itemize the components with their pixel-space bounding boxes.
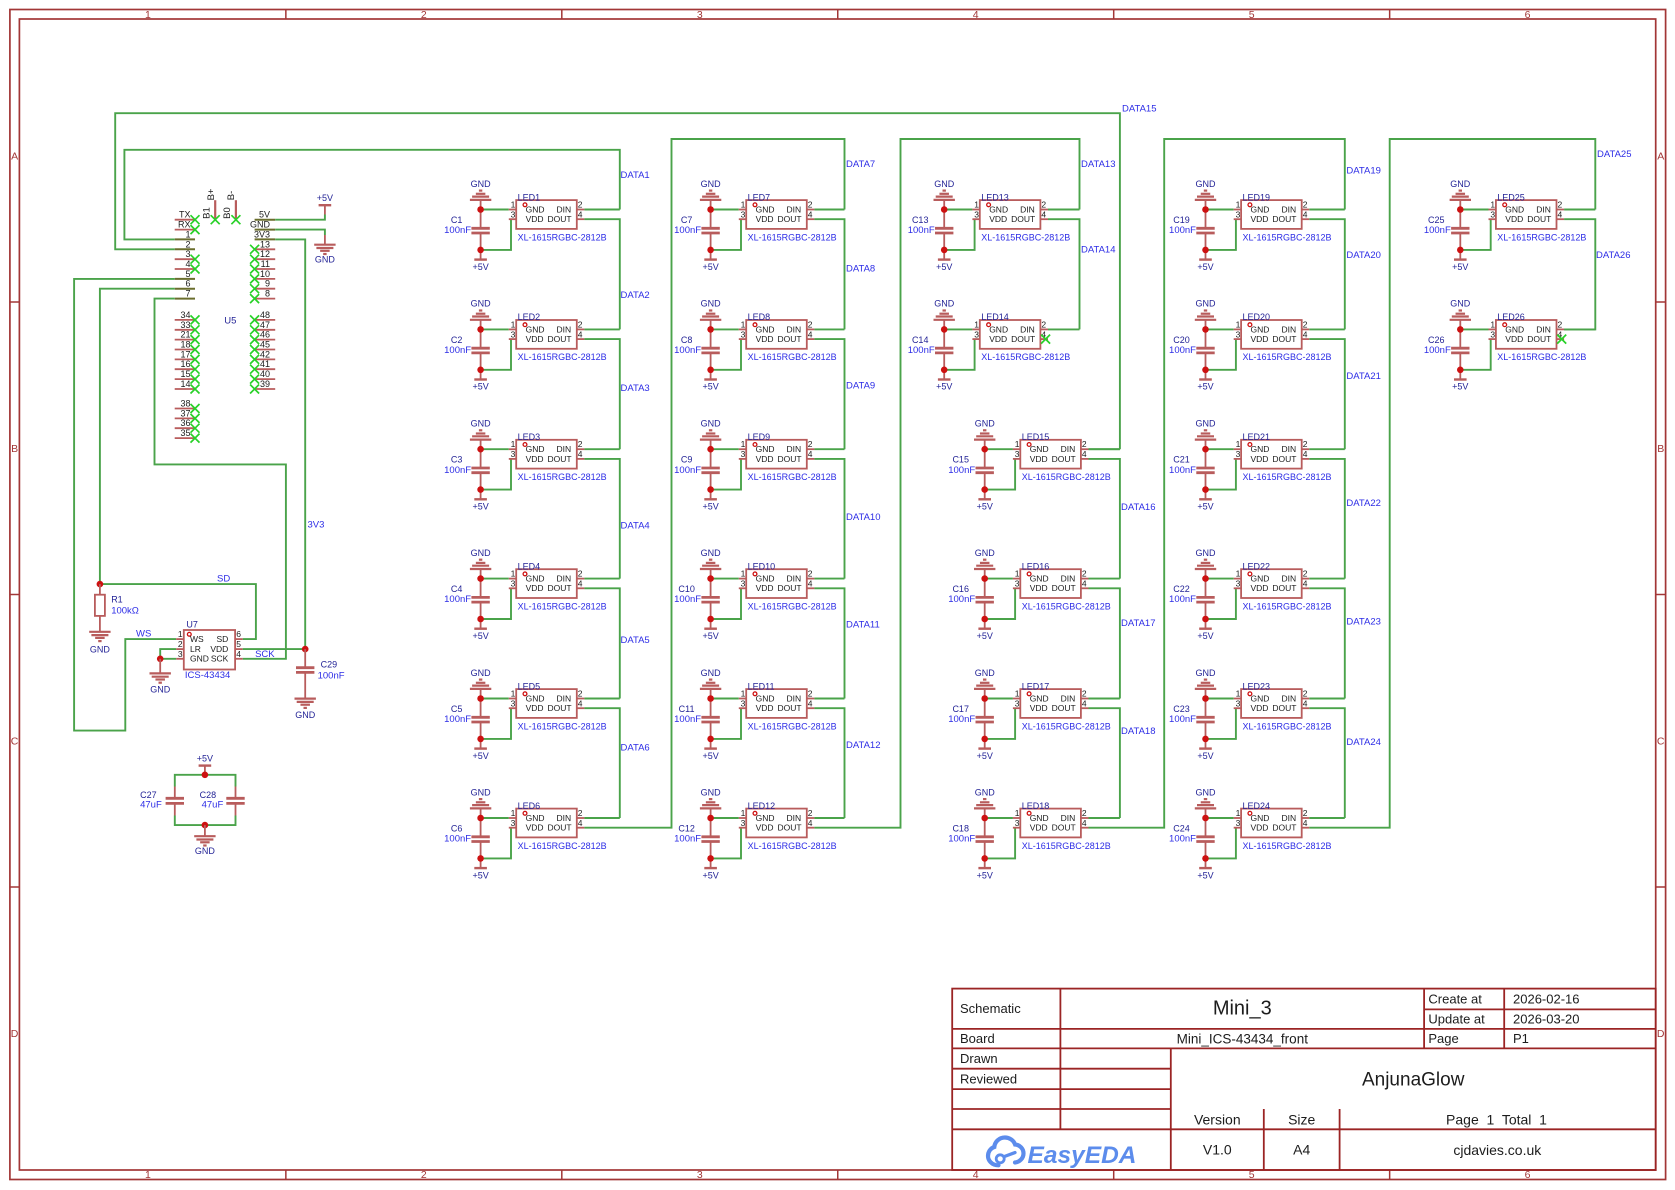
svg-text:GND: GND [526,813,545,823]
svg-text:XL-1615RGBC-2812B: XL-1615RGBC-2812B [518,721,607,731]
svg-text:3: 3 [511,329,516,339]
wire DATA10 LED9 DOUT to LED10 DIN [814,459,844,579]
wire DATA24 LED23 DOUT to LED24 DIN [1309,708,1345,818]
wire DATA26 LED25 DOUT to LED26 DIN [1564,219,1595,329]
wire C25 to LED25 GND pin [1460,209,1488,211]
svg-text:4: 4 [1303,818,1308,828]
svg-text:DATA23: DATA23 [1346,617,1381,628]
svg-text:DIN: DIN [1281,444,1296,454]
no-connect LED14 DOUT [1041,335,1050,344]
svg-text:100nF: 100nF [1424,225,1451,236]
svg-text:+5V: +5V [702,262,718,272]
svg-text:1: 1 [1015,689,1020,699]
svg-text:2: 2 [578,808,583,818]
svg-text:GND: GND [934,179,955,189]
ground symbol (LED4 block) [470,548,491,579]
no-connect LED26 DOUT [1557,335,1566,344]
svg-text:C9: C9 [681,455,693,465]
svg-text:100nF: 100nF [948,834,975,845]
svg-text:3: 3 [1490,209,1495,219]
svg-text:100nF: 100nF [444,345,471,356]
+5V power symbol (LED5 block) [472,739,488,761]
svg-text:100nF: 100nF [1169,345,1196,356]
junction C14 bottom [941,367,948,374]
svg-text:17: 17 [180,349,190,359]
wire SCK net [155,299,286,659]
svg-text:+5V: +5V [1197,751,1213,761]
svg-text:VDD: VDD [1505,334,1523,344]
wire DATA26 to LED26 DIN [1564,328,1595,330]
junction bottom rail [202,822,209,829]
+5V power symbol (LED23 block) [1197,739,1213,761]
svg-text:C3: C3 [451,455,463,465]
wire +5V to LED20 VDD pin [1206,339,1236,370]
svg-text:35: 35 [180,428,190,438]
ground symbol (LED21 block) [1195,419,1216,450]
svg-text:C4: C4 [451,584,463,594]
LED26 XL-1615RGBC-2812B [1489,312,1587,362]
svg-text:DATA26: DATA26 [1596,250,1631,261]
svg-text:2: 2 [808,808,813,818]
svg-text:VDD: VDD [756,823,774,833]
capacitor C19 100nF [1169,210,1215,250]
wire DATA13 LED12 DOUT to LED13 DIN [814,139,1079,828]
svg-text:GND: GND [701,419,722,429]
junction C10 top [707,575,714,582]
svg-text:+5V: +5V [472,751,488,761]
svg-text:1: 1 [1490,200,1495,210]
svg-text:3: 3 [511,579,516,589]
svg-text:DOUT: DOUT [548,454,572,464]
svg-text:GND: GND [526,444,545,454]
svg-text:+5V: +5V [472,631,488,641]
svg-text:2: 2 [185,239,190,249]
svg-text:VDD: VDD [1030,823,1048,833]
ground symbol (LED7 block) [700,179,721,210]
svg-text:DOUT: DOUT [1052,823,1076,833]
svg-text:B0: B0 [222,207,233,219]
svg-text:GND: GND [1030,444,1049,454]
svg-text:GND: GND [1450,299,1471,309]
svg-text:VDD: VDD [1030,703,1048,713]
+5V power symbol (LED16 block) [977,619,993,641]
capacitor C4 100nF [444,579,490,619]
LED11 XL-1615RGBC-2812B [739,681,837,731]
+5V power symbol (LED14 block) [936,370,952,392]
wire DATA7 to LED7 DIN [814,209,844,211]
svg-text:GND: GND [295,710,316,720]
wire DATA4 to LED4 DIN [584,578,619,580]
svg-text:GND: GND [1505,324,1524,334]
junction VDD/3V3/C29 [302,646,309,653]
svg-text:2: 2 [421,1169,427,1181]
wire DATA19 LED18 DOUT to LED19 DIN [1089,139,1345,828]
wire DATA8 to LED8 DIN [814,328,844,330]
svg-text:LED13: LED13 [981,192,1009,202]
svg-text:GND: GND [701,787,722,797]
svg-text:16: 16 [180,359,190,369]
capacitor C9 100nF [674,449,720,489]
svg-text:2: 2 [178,639,183,649]
svg-text:GND: GND [526,693,545,703]
svg-text:C10: C10 [678,584,695,594]
svg-text:100nF: 100nF [444,834,471,845]
svg-text:Drawn: Drawn [960,1051,998,1066]
svg-text:46: 46 [260,330,270,340]
svg-text:C28: C28 [200,790,217,800]
wire DATA15 to LED15 DIN [1089,448,1120,450]
svg-text:EasyEDA: EasyEDA [1028,1142,1137,1169]
svg-text:B: B [11,443,18,455]
svg-text:B-: B- [226,191,237,201]
svg-text:XL-1615RGBC-2812B: XL-1615RGBC-2812B [1497,352,1586,362]
svg-text:LED15: LED15 [1022,432,1050,442]
svg-text:1: 1 [741,569,746,579]
svg-text:6: 6 [185,279,190,289]
svg-text:40: 40 [260,369,270,379]
svg-text:LED20: LED20 [1243,312,1271,322]
svg-text:LED25: LED25 [1497,192,1525,202]
wire C26 to LED26 GND pin [1460,328,1488,330]
wire DATA2 to LED2 DIN [584,328,619,330]
+5V power symbol (LED8 block) [702,370,718,392]
wire U7 GND pin [160,658,176,660]
svg-text:GND: GND [471,419,492,429]
wire C22 to LED22 GND pin [1206,578,1234,580]
svg-text:LED14: LED14 [981,312,1009,322]
junction C24 bottom [1202,855,1209,862]
+5V power symbol (LED18 block) [977,858,993,880]
svg-text:DATA16: DATA16 [1121,502,1156,513]
svg-text:4: 4 [1303,579,1308,589]
svg-text:DOUT: DOUT [548,214,572,224]
svg-text:41: 41 [260,359,270,369]
svg-text:15: 15 [180,369,190,379]
svg-text:5: 5 [1249,9,1255,21]
svg-text:DATA19: DATA19 [1346,166,1381,177]
svg-text:+5V: +5V [702,751,718,761]
svg-text:4: 4 [236,649,241,659]
wire DATA12 LED11 DOUT to LED12 DIN [814,708,844,818]
svg-text:1: 1 [741,689,746,699]
junction C7 top [707,206,714,213]
svg-text:LED10: LED10 [748,561,776,571]
wire DATA5 to LED5 DIN [584,698,619,700]
svg-text:XL-1615RGBC-2812B: XL-1615RGBC-2812B [1243,232,1332,242]
svg-text:XL-1615RGBC-2812B: XL-1615RGBC-2812B [748,601,837,611]
svg-text:XL-1615RGBC-2812B: XL-1615RGBC-2812B [1022,472,1111,482]
svg-text:DIN: DIN [1061,444,1076,454]
svg-text:DOUT: DOUT [1272,703,1296,713]
svg-text:2: 2 [578,319,583,329]
svg-text:DOUT: DOUT [1272,583,1296,593]
svg-text:47uF: 47uF [202,800,224,811]
capacitor C10 100nF [674,579,720,619]
wire C14 to LED14 GND pin [944,328,972,330]
junction C20 bottom [1202,367,1209,374]
wire C23 to LED23 GND pin [1206,698,1234,700]
svg-text:VDD: VDD [756,703,774,713]
svg-text:C22: C22 [1173,584,1190,594]
svg-text:C18: C18 [952,824,969,834]
wire +5V to LED8 VDD pin [711,339,741,370]
svg-text:DATA22: DATA22 [1346,498,1381,509]
svg-text:DOUT: DOUT [548,583,572,593]
svg-text:Page 1 Total 1: Page 1 Total 1 [1446,1111,1547,1127]
wire DATA10 to LED10 DIN [814,578,844,580]
svg-text:100nF: 100nF [1169,714,1196,725]
wire +5V to LED9 VDD pin [711,459,741,490]
svg-text:B+: B+ [206,188,217,200]
svg-text:GND: GND [471,548,492,558]
junction C15 bottom [981,486,988,493]
wire +5V to LED24 VDD pin [1206,828,1236,859]
svg-text:GND: GND [315,255,336,265]
svg-text:C21: C21 [1173,455,1190,465]
svg-text:C29: C29 [321,659,338,669]
svg-text:VDD: VDD [1505,214,1523,224]
svg-text:DIN: DIN [557,813,572,823]
svg-text:GND: GND [471,668,492,678]
svg-text:GND: GND [989,324,1008,334]
svg-text:Mini_3: Mini_3 [1213,998,1272,1020]
junction C4 top [477,575,484,582]
ground symbol (LED13 block) [934,179,955,210]
svg-text:DATA3: DATA3 [621,383,650,394]
ground symbol at U7 [150,659,171,695]
junction C12 top [707,815,714,822]
svg-text:DOUT: DOUT [1052,583,1076,593]
svg-text:1: 1 [741,808,746,818]
svg-text:DOUT: DOUT [1011,334,1035,344]
svg-text:LED18: LED18 [1022,801,1050,811]
junction C20 top [1202,326,1209,333]
svg-text:100nF: 100nF [674,594,701,605]
LED5 XL-1615RGBC-2812B [509,681,607,731]
svg-text:2: 2 [1303,689,1308,699]
wire U7 VDD to 3V3 [243,648,306,650]
svg-text:DIN: DIN [557,204,572,214]
junction C22 top [1202,575,1209,582]
svg-text:45: 45 [260,340,270,350]
svg-text:1: 1 [185,229,190,239]
+5V power symbol (LED22 block) [1197,619,1213,641]
wire DATA16 LED15 DOUT to LED16 DIN [1089,459,1120,579]
svg-text:5: 5 [236,639,241,649]
junction C10 bottom [707,616,714,623]
ground symbol (LED9 block) [700,419,721,450]
svg-text:33: 33 [180,320,190,330]
+5V power symbol (LED21 block) [1197,490,1213,512]
svg-text:GND: GND [756,693,775,703]
ground symbol (LED16 block) [974,548,995,579]
svg-text:DATA14: DATA14 [1081,244,1116,255]
svg-text:2: 2 [578,569,583,579]
svg-text:VDD: VDD [1251,214,1269,224]
svg-text:+5V: +5V [977,502,993,512]
svg-text:6: 6 [1525,1169,1531,1181]
wire C2 to LED2 GND pin [481,328,509,330]
svg-text:GND: GND [989,204,1008,214]
svg-text:DOUT: DOUT [1527,214,1551,224]
svg-text:+5V: +5V [1452,262,1468,272]
svg-text:1: 1 [145,1169,151,1181]
svg-text:1: 1 [178,629,183,639]
svg-text:LED24: LED24 [1243,801,1271,811]
junction C19 bottom [1202,247,1209,254]
LED9 XL-1615RGBC-2812B [739,432,837,482]
svg-text:XL-1615RGBC-2812B: XL-1615RGBC-2812B [518,601,607,611]
+5V power symbol (LED6 block) [472,858,488,880]
svg-text:4: 4 [578,698,583,708]
svg-text:100nF: 100nF [948,465,975,476]
svg-text:DOUT: DOUT [1272,214,1296,224]
capacitor C23 100nF [1169,699,1215,739]
svg-text:R1: R1 [111,594,123,604]
LED15 XL-1615RGBC-2812B [1013,432,1111,482]
svg-text:GND: GND [1196,548,1217,558]
svg-text:XL-1615RGBC-2812B: XL-1615RGBC-2812B [1243,721,1332,731]
svg-text:SD: SD [216,634,228,644]
svg-text:C: C [1657,735,1665,747]
svg-text:U7: U7 [186,620,198,630]
svg-text:XL-1615RGBC-2812B: XL-1615RGBC-2812B [748,721,837,731]
svg-text:XL-1615RGBC-2812B: XL-1615RGBC-2812B [518,841,607,851]
svg-text:TX: TX [179,210,191,220]
capacitor C13 100nF [908,210,954,250]
svg-text:3: 3 [1236,209,1241,219]
svg-text:LED26: LED26 [1497,312,1525,322]
svg-text:DATA10: DATA10 [846,512,881,523]
LED23 XL-1615RGBC-2812B [1234,681,1332,731]
svg-text:+5V: +5V [472,382,488,392]
capacitor C11 100nF [674,699,720,739]
svg-text:GND: GND [250,220,271,230]
svg-text:DIN: DIN [1061,813,1076,823]
svg-text:LED3: LED3 [518,432,541,442]
svg-text:C7: C7 [681,215,693,225]
svg-text:11: 11 [261,259,270,269]
LED3 XL-1615RGBC-2812B [509,432,607,482]
wire 3V3 net [275,239,305,649]
capacitor C2 100nF [444,329,490,369]
svg-text:XL-1615RGBC-2812B: XL-1615RGBC-2812B [1243,841,1332,851]
svg-text:C14: C14 [912,335,929,345]
svg-text:DOUT: DOUT [1272,823,1296,833]
svg-text:DATA20: DATA20 [1346,250,1381,261]
capacitor C28 47uF [200,787,245,816]
svg-text:100nF: 100nF [674,345,701,356]
svg-text:+5V: +5V [702,382,718,392]
svg-text:4: 4 [578,579,583,589]
svg-text:5: 5 [185,269,190,279]
svg-text:C17: C17 [952,704,969,714]
svg-text:1: 1 [741,439,746,449]
LED2 XL-1615RGBC-2812B [509,312,607,362]
wire DATA21 to LED21 DIN [1309,448,1345,450]
ground symbol (LED23 block) [1195,668,1216,699]
junction C1 bottom [477,247,484,254]
svg-text:C15: C15 [952,455,969,465]
svg-text:GND: GND [471,299,492,309]
wire C13 to LED13 GND pin [944,209,972,211]
svg-text:GND: GND [1196,668,1217,678]
svg-text:XL-1615RGBC-2812B: XL-1615RGBC-2812B [1022,721,1111,731]
ground symbol (LED3 block) [470,419,491,450]
svg-text:3: 3 [741,329,746,339]
wire DATA3 to LED3 DIN [584,448,619,450]
svg-text:100nF: 100nF [674,465,701,476]
svg-text:LED4: LED4 [518,561,541,571]
svg-text:GND: GND [1251,324,1270,334]
svg-text:A4: A4 [1293,1141,1310,1157]
svg-text:DATA1: DATA1 [621,170,650,181]
svg-text:VDD: VDD [1251,454,1269,464]
svg-text:GND: GND [150,685,171,695]
svg-text:+5V: +5V [472,262,488,272]
svg-text:2: 2 [421,9,427,21]
svg-text:2: 2 [1558,319,1563,329]
svg-text:XL-1615RGBC-2812B: XL-1615RGBC-2812B [748,352,837,362]
svg-text:2: 2 [1558,200,1563,210]
junction C2 bottom [477,367,484,374]
svg-text:3: 3 [974,209,979,219]
wire +5V to LED5 VDD pin [481,708,511,739]
svg-text:DATA6: DATA6 [621,742,650,753]
svg-text:2: 2 [1041,319,1046,329]
svg-text:3V3: 3V3 [254,229,270,239]
junction C1 top [477,206,484,213]
junction C17 top [981,695,988,702]
wire C6 to LED6 GND pin [481,817,509,819]
svg-text:4: 4 [185,259,190,269]
LED13 XL-1615RGBC-2812B [972,192,1070,242]
svg-text:C23: C23 [1173,704,1190,714]
wire +5V to LED4 VDD pin [481,588,511,619]
svg-text:DATA17: DATA17 [1121,618,1156,629]
LED14 XL-1615RGBC-2812B [972,312,1070,362]
+5V power symbol at U5 [317,193,333,214]
junction C25 bottom [1457,247,1464,254]
svg-text:DIN: DIN [1020,324,1035,334]
svg-text:4: 4 [808,698,813,708]
svg-text:6: 6 [1525,9,1531,21]
svg-text:DOUT: DOUT [1011,214,1035,224]
junction C13 bottom [941,247,948,254]
+5V power symbol (LED13 block) [936,250,952,272]
svg-text:2: 2 [1082,439,1087,449]
wire +5V to LED10 VDD pin [711,588,741,619]
junction C11 top [707,695,714,702]
svg-text:DOUT: DOUT [1527,334,1551,344]
junction C17 bottom [981,736,988,743]
svg-text:1: 1 [741,200,746,210]
svg-text:GND: GND [934,299,955,309]
junction R1 top [97,581,104,588]
svg-text:4: 4 [808,449,813,459]
svg-text:VDD: VDD [1251,583,1269,593]
svg-text:1: 1 [1236,439,1241,449]
svg-text:+5V: +5V [472,870,488,880]
svg-text:2: 2 [1303,319,1308,329]
svg-text:D: D [1657,1028,1665,1040]
svg-text:4: 4 [578,209,583,219]
svg-text:GND: GND [1251,693,1270,703]
svg-text:2: 2 [1082,569,1087,579]
wire DATA1 to LED1 DIN [584,209,619,211]
svg-text:34: 34 [180,310,190,320]
svg-text:3: 3 [1015,698,1020,708]
